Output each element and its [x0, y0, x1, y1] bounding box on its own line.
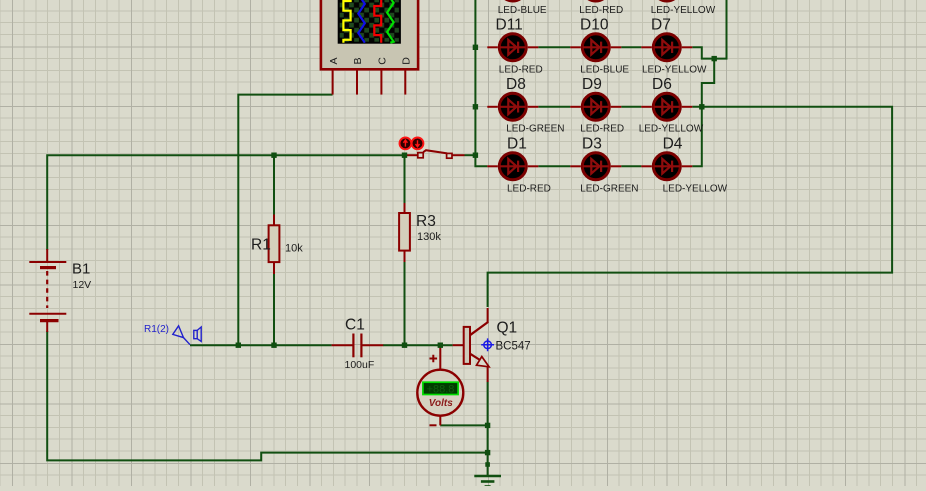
svg-text:D7: D7: [651, 16, 671, 33]
wire speaker node: [190, 344, 332, 346]
wire R1 bottom branch: [273, 274, 275, 346]
wire LED row3 gap a: [538, 165, 570, 167]
wire Q1 emitter down: [487, 382, 489, 453]
wire scope channel A: [238, 95, 332, 346]
junction dot bus switch: [473, 153, 478, 158]
svg-text:A: A: [328, 57, 340, 64]
junction dot bus row1: [473, 45, 478, 50]
svg-text:R1: R1: [251, 237, 271, 254]
wire R3 bottom branch: [404, 261, 406, 345]
svg-text:BC547: BC547: [496, 341, 531, 353]
svg-text:130k: 130k: [417, 231, 441, 243]
LED D4: [641, 135, 727, 194]
wire ground stub: [487, 453, 489, 476]
svg-text:12V: 12V: [73, 279, 92, 291]
LED D9: [570, 76, 624, 135]
wire R3 top branch: [404, 155, 406, 204]
junction dot scope wire: [236, 343, 241, 348]
wire C1 to Q1 base: [383, 344, 453, 346]
svg-text:LED-RED: LED-RED: [580, 124, 624, 135]
transistor Q1: [453, 308, 531, 382]
svg-text:B1: B1: [72, 261, 90, 278]
wire switch to LED bus: [465, 154, 476, 156]
svg-text:100uF: 100uF: [345, 359, 375, 371]
LED D6: [639, 76, 704, 135]
resistor R1: [251, 215, 303, 275]
switch SW1: [400, 138, 465, 159]
oscilloscope: [321, 0, 418, 95]
svg-text:C: C: [377, 57, 389, 65]
capacitor C1: [332, 317, 384, 372]
junction dot right row2: [699, 104, 704, 109]
svg-text:B: B: [352, 57, 364, 64]
svg-text:R3: R3: [416, 213, 436, 230]
junction dot R3 bottom: [402, 343, 407, 348]
wire LED left bus: [475, 0, 487, 166]
wire battery negative bottom rail: [47, 331, 487, 460]
svg-text:D10: D10: [580, 16, 609, 33]
svg-text:+88.8: +88.8: [427, 383, 455, 395]
wire battery positive to top rail: [47, 155, 404, 250]
junction dot voltmeter top: [438, 343, 443, 348]
LED D7: [641, 16, 707, 75]
wire row1 to right bus: [692, 0, 726, 59]
svg-text:LED-YELLOW: LED-YELLOW: [642, 65, 707, 76]
wire R1 top branch: [273, 155, 275, 215]
LED D3: [570, 135, 638, 194]
node marker Q1: [481, 338, 494, 351]
svg-text:D6: D6: [652, 76, 672, 93]
svg-text:D11: D11: [496, 16, 523, 33]
junction dot bus row2: [473, 104, 478, 109]
svg-text:LED-YELLOW: LED-YELLOW: [651, 5, 716, 16]
wire row2 long loop to collector: [488, 107, 892, 307]
wire LED row3 gap b: [621, 165, 641, 167]
svg-text:LED-YELLOW: LED-YELLOW: [639, 124, 704, 135]
svg-text:LED-RED: LED-RED: [507, 183, 551, 194]
junction dot right top: [712, 56, 717, 61]
ground: [474, 462, 501, 486]
svg-text:Volts: Volts: [429, 398, 454, 409]
junction dot top rail R1: [271, 153, 276, 158]
LED D10: [570, 16, 629, 75]
svg-text:LED-GREEN: LED-GREEN: [506, 124, 564, 135]
speaker probe R1(2): [144, 324, 201, 345]
svg-text:Q1: Q1: [497, 320, 518, 337]
LED D1: [487, 135, 551, 194]
svg-text:10k: 10k: [285, 243, 303, 255]
wire LED row1 gap a: [538, 46, 570, 48]
wire right staircase: [692, 59, 714, 167]
battery B1: [29, 249, 91, 332]
svg-text:LED-GREEN: LED-GREEN: [580, 183, 638, 194]
svg-text:D9: D9: [582, 76, 602, 93]
svg-text:LED-BLUE: LED-BLUE: [580, 65, 629, 76]
svg-text:D: D: [401, 57, 413, 65]
junction dot R1 bottom: [271, 343, 276, 348]
svg-text:D4: D4: [663, 135, 683, 152]
svg-text:C1: C1: [345, 317, 365, 334]
wire LED row2 gap b: [621, 106, 641, 108]
voltmeter: [417, 345, 463, 425]
svg-text:D1: D1: [507, 135, 527, 152]
svg-text:LED-RED: LED-RED: [579, 5, 623, 16]
LED D11: [487, 16, 542, 75]
svg-text:LED-RED: LED-RED: [499, 65, 543, 76]
wire LED row1 gap b: [621, 46, 641, 48]
svg-text:LED-YELLOW: LED-YELLOW: [663, 183, 728, 194]
svg-text:R1(2): R1(2): [144, 324, 169, 335]
svg-text:LED-BLUE: LED-BLUE: [498, 5, 547, 16]
wire voltmeter minus to emitter: [440, 424, 487, 426]
junction dot top rail R3 switch: [402, 153, 407, 158]
resistor R3: [399, 203, 441, 262]
LED row0 cutoff tops: [498, 0, 716, 16]
wire LED row2 gap a: [538, 106, 570, 108]
junction dot emitter ground: [485, 450, 490, 455]
LED D8: [487, 76, 564, 135]
svg-text:D8: D8: [506, 76, 526, 93]
junction dot emitter meter: [485, 423, 490, 428]
svg-text:D3: D3: [582, 135, 602, 152]
